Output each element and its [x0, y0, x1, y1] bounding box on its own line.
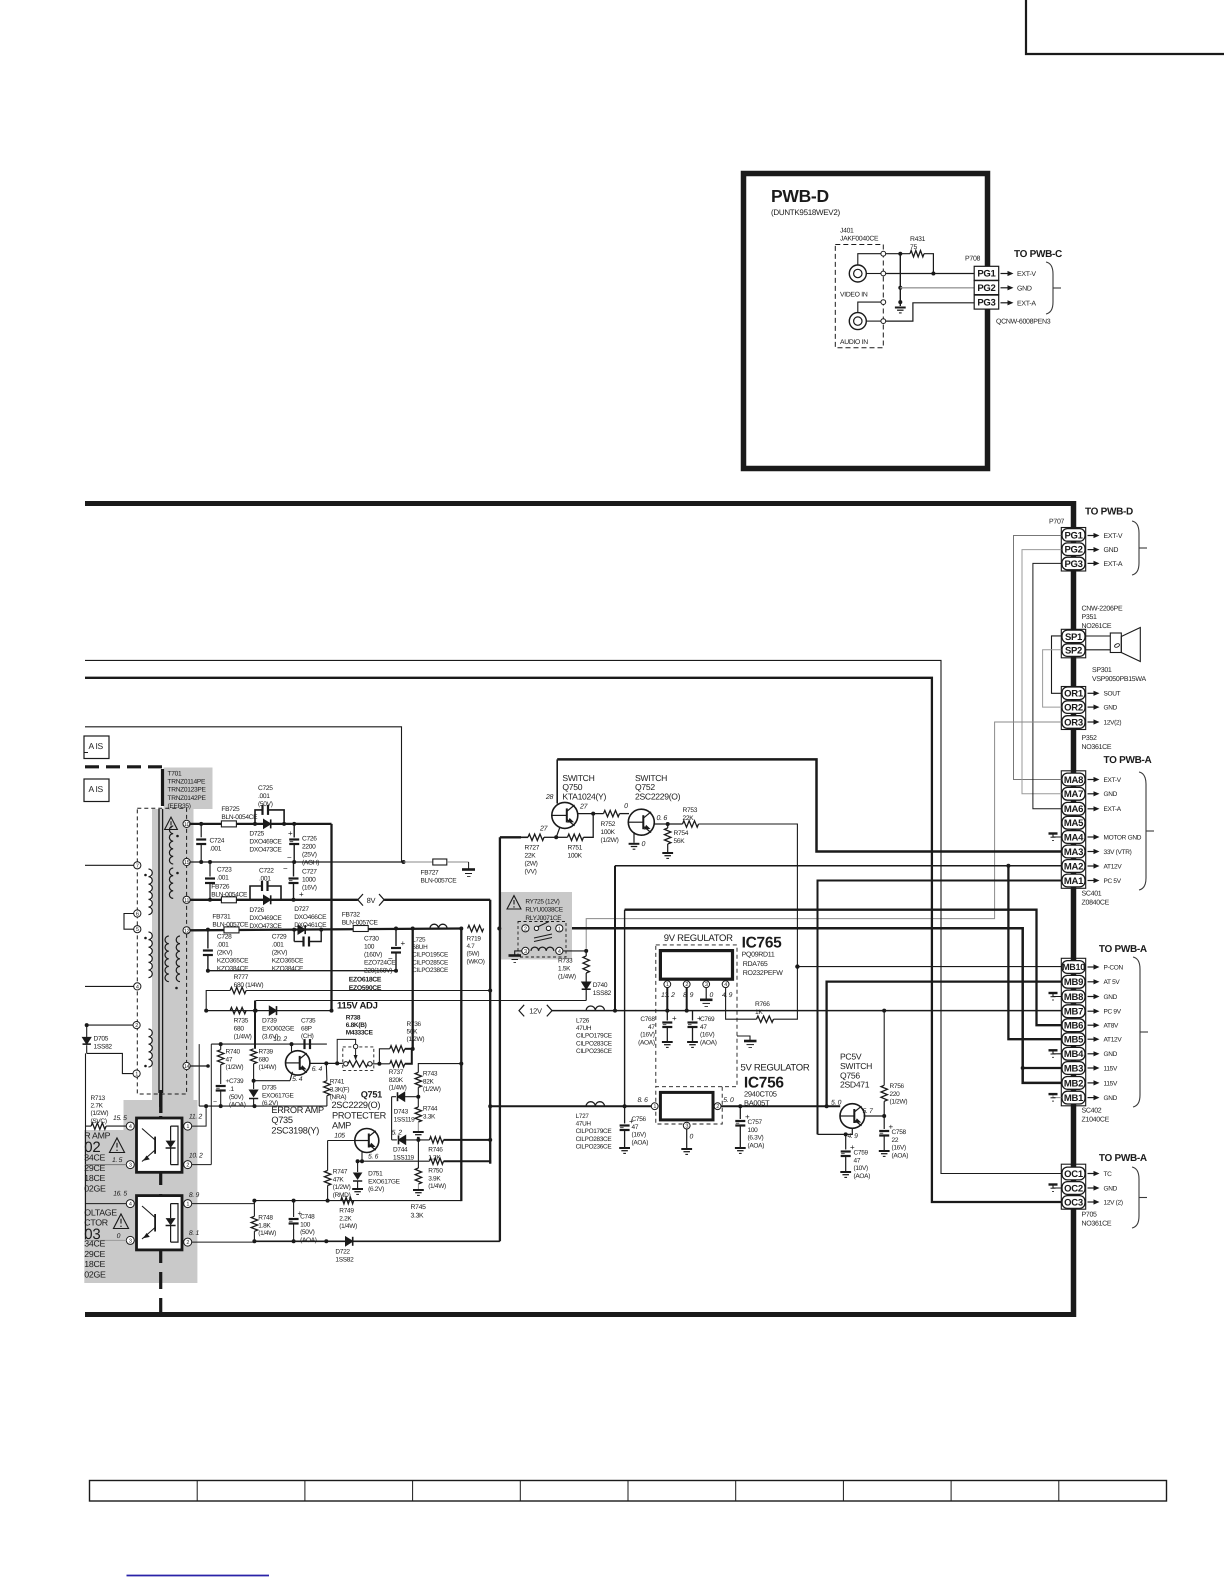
transistor Q735 (error amp)	[286, 1051, 310, 1075]
svg-text:0: 0	[624, 803, 628, 810]
IC765 pin 1	[664, 981, 671, 988]
svg-text:RY725 (12V): RY725 (12V)	[525, 899, 559, 906]
PWB-D board outline	[744, 174, 988, 469]
svg-text:02GE: 02GE	[84, 1269, 106, 1279]
svg-text:OR1: OR1	[1064, 689, 1084, 700]
svg-text:Z1040CE: Z1040CE	[1082, 1117, 1110, 1124]
diode D743	[392, 1096, 396, 1098]
blue revision underline	[127, 1575, 270, 1577]
capacitor C768	[666, 1011, 668, 1021]
svg-text:(1/4W): (1/4W)	[234, 1034, 252, 1041]
connector MA7	[1062, 787, 1085, 800]
svg-text:R741: R741	[330, 1079, 345, 1086]
junction 115V rail to down-feeder	[411, 927, 415, 931]
transistor Q752	[628, 809, 654, 835]
arrow P707 GND	[1088, 549, 1094, 551]
svg-text:22K: 22K	[525, 853, 537, 860]
svg-text:0: 0	[117, 1233, 121, 1240]
wire IC756 output	[721, 1105, 840, 1107]
svg-text:MB9: MB9	[1064, 977, 1083, 988]
IC765 pin 3	[703, 981, 710, 988]
svg-text:−: −	[287, 853, 292, 862]
svg-text:02GE: 02GE	[84, 1183, 106, 1193]
svg-text:TO PWB-D: TO PWB-D	[1085, 507, 1133, 518]
svg-text:220: 220	[890, 1091, 901, 1098]
svg-text:EZO618CE: EZO618CE	[349, 977, 382, 984]
junction 115V to R727 feeder	[497, 927, 501, 931]
wire 12V rail to MB7	[552, 1010, 1061, 1012]
wire Q750 to R752	[578, 813, 604, 815]
svg-text:GND: GND	[1104, 994, 1118, 1001]
wire 33V (VTR) net to MA3	[557, 759, 1061, 851]
ground (video/audio common)	[899, 302, 901, 306]
svg-text:.001: .001	[258, 793, 270, 800]
wire pin12 rail (115V)	[190, 929, 461, 931]
svg-text:10. 2: 10. 2	[189, 1153, 203, 1160]
transformer pin 12	[183, 927, 190, 934]
main schematic border (right)	[1071, 501, 1077, 1317]
svg-text:3: 3	[685, 1124, 688, 1130]
transformer pin 14	[183, 1062, 190, 1069]
svg-text:8V: 8V	[367, 896, 376, 905]
svg-text:0: 0	[642, 841, 646, 848]
svg-text:SOUT: SOUT	[1104, 691, 1121, 698]
svg-text:2200: 2200	[302, 844, 316, 851]
svg-text:GND: GND	[1104, 705, 1118, 712]
wire D705 node down to opto feeds	[85, 1053, 87, 1239]
svg-text:6. 4: 6. 4	[312, 1066, 323, 1073]
PC703 pin 1	[184, 1200, 192, 1208]
wire Q756 collector to PC5V	[818, 1128, 853, 1134]
wire 8V rail to down-corner	[384, 899, 490, 901]
svg-text:AT 5V: AT 5V	[1104, 979, 1121, 986]
svg-text:PC 9V: PC 9V	[1104, 1009, 1122, 1016]
svg-text:MB6: MB6	[1064, 1021, 1083, 1032]
svg-text:C722: C722	[259, 868, 274, 875]
IC765 tab ground	[737, 1036, 750, 1041]
PC703 pin 4	[126, 1200, 134, 1208]
svg-text:12V (2): 12V (2)	[1104, 1199, 1123, 1206]
svg-text:105: 105	[334, 1133, 345, 1140]
resistor R733	[585, 951, 587, 956]
svg-text:(1/2W): (1/2W)	[407, 1036, 425, 1043]
svg-text:PROTECTER: PROTECTER	[332, 1110, 387, 1120]
svg-text:47: 47	[700, 1024, 707, 1031]
svg-text:KZO384CE: KZO384CE	[272, 966, 304, 973]
svg-text:BLN-0054CE: BLN-0054CE	[211, 892, 248, 899]
svg-text:680: 680	[259, 1056, 270, 1063]
resistor R756	[883, 1011, 885, 1086]
PC702 pin 2	[184, 1161, 192, 1169]
svg-text:2: 2	[524, 926, 527, 932]
wire Q751 collector riser	[391, 1097, 393, 1140]
svg-text:1SS119: 1SS119	[394, 1116, 416, 1123]
svg-text:2: 2	[135, 1023, 138, 1029]
connector OC2	[1062, 1182, 1085, 1195]
warning triangle (transformer)	[165, 817, 178, 829]
arrow EXT-V	[1001, 273, 1008, 275]
IC765 pin 2	[683, 981, 690, 988]
svg-text:+: +	[672, 1014, 677, 1023]
svg-text:Z0840CE: Z0840CE	[1082, 900, 1110, 907]
svg-text:C759: C759	[854, 1150, 869, 1157]
svg-text:(16V): (16V)	[302, 885, 317, 892]
wire AT12V riser	[614, 866, 616, 1011]
svg-text:8. 9: 8. 9	[683, 992, 694, 999]
speaker SP301	[1086, 635, 1111, 637]
svg-text:Q751: Q751	[361, 1090, 382, 1100]
wire audio to PG3	[886, 303, 975, 321]
svg-text:PG3: PG3	[1064, 559, 1082, 570]
relay pin3 ground	[515, 951, 522, 956]
svg-text:47UH: 47UH	[576, 1121, 592, 1128]
svg-text:6.8K(B): 6.8K(B)	[346, 1022, 367, 1029]
svg-text:100: 100	[300, 1221, 311, 1228]
svg-text:C727: C727	[302, 869, 317, 876]
transformer primary winding (pins 5-4)	[149, 932, 153, 978]
transformer pin 5	[134, 926, 141, 933]
svg-text:GND: GND	[1104, 1095, 1118, 1102]
arrow MB7 PC 9V	[1088, 1010, 1094, 1012]
connector MB4	[1062, 1047, 1085, 1060]
IC756 pin3 ground	[686, 1129, 688, 1148]
ground at MB4	[1053, 1050, 1061, 1054]
svg-text:(50V): (50V)	[300, 1229, 315, 1236]
svg-text:R753: R753	[683, 807, 698, 814]
svg-text:R737: R737	[389, 1069, 404, 1076]
transformer polarity dots	[144, 874, 147, 877]
svg-text:C729: C729	[272, 934, 287, 941]
svg-text:IC765: IC765	[742, 935, 783, 952]
svg-text:MB3: MB3	[1064, 1063, 1083, 1074]
wire R777 to 8V rail	[246, 990, 490, 992]
svg-text:R739: R739	[259, 1049, 274, 1056]
wire opto2 pin1 rail (C748 R748)	[192, 1201, 255, 1204]
IC756 pin 1	[651, 1103, 658, 1110]
capacitor C769	[692, 1011, 694, 1021]
svg-text:(6.2V): (6.2V)	[368, 1186, 384, 1193]
svg-text:FB725: FB725	[221, 806, 240, 813]
ground at MB1 (gray)	[1053, 1094, 1061, 1098]
svg-text:TRNZ0142PE: TRNZ0142PE	[168, 795, 207, 802]
svg-text:82K: 82K	[423, 1078, 435, 1085]
connector MA3	[1062, 845, 1085, 858]
svg-text:MB1: MB1	[1064, 1093, 1084, 1104]
svg-text:12V: 12V	[529, 1006, 542, 1015]
svg-text:2SC2229(O): 2SC2229(O)	[635, 791, 681, 801]
svg-text:RLYU0038CE: RLYU0038CE	[525, 907, 563, 914]
svg-text:C769: C769	[700, 1016, 715, 1023]
svg-text:VSP9050PB15WA: VSP9050PB15WA	[1092, 676, 1146, 683]
svg-text:(2KV): (2KV)	[272, 950, 287, 957]
svg-text:(EER35): (EER35)	[168, 803, 191, 810]
wire R777 branch	[206, 991, 230, 1011]
transformer pin 15	[183, 858, 190, 865]
PC703 LED	[170, 1204, 172, 1219]
svg-text:PG1: PG1	[977, 269, 996, 280]
capacitor C728	[206, 928, 210, 932]
resistor R752	[604, 810, 620, 816]
svg-text:C756: C756	[632, 1116, 647, 1123]
svg-text:CILPO236CE: CILPO236CE	[576, 1143, 612, 1150]
RCA jack VIDEO IN	[849, 265, 866, 282]
PC702 phototransistor	[154, 1137, 156, 1154]
connector P707 PG1	[1062, 529, 1085, 542]
connector MB2	[1062, 1077, 1085, 1090]
IC765 pin3 ground	[705, 988, 707, 1000]
wire video jack shield to pin	[858, 254, 881, 265]
svg-text:.001: .001	[210, 846, 222, 853]
svg-text:SP301: SP301	[1092, 667, 1112, 674]
diode D705	[86, 1025, 88, 1037]
svg-text:EXO602GE: EXO602GE	[262, 1026, 295, 1033]
svg-text:(1/2W): (1/2W)	[226, 1064, 244, 1071]
svg-text:FB731: FB731	[212, 914, 231, 921]
svg-text:100: 100	[364, 944, 375, 951]
resistor R746	[430, 1137, 444, 1143]
svg-text:(16V): (16V)	[892, 1145, 907, 1152]
wire pot right to dividers	[372, 1063, 390, 1065]
wire Q752 collector rail	[654, 823, 682, 825]
svg-text:28: 28	[545, 794, 554, 801]
wire IC765 pin2 to 12V rail	[686, 988, 688, 1011]
svg-text:15: 15	[184, 860, 190, 866]
diode D744	[392, 1139, 397, 1141]
svg-text:4: 4	[136, 984, 139, 990]
svg-text:P351: P351	[1082, 614, 1098, 621]
svg-text:56K: 56K	[674, 838, 686, 845]
svg-text:EXO617GE: EXO617GE	[368, 1178, 401, 1185]
svg-text:0: 0	[690, 1134, 694, 1141]
svg-text:R736: R736	[407, 1021, 422, 1028]
svg-text:R431: R431	[910, 236, 926, 243]
transformer secondary winding (pin 15-11)	[169, 868, 173, 898]
svg-text:3.3K(F): 3.3K(F)	[330, 1086, 350, 1093]
svg-text:R749: R749	[339, 1208, 354, 1215]
wire relay pin4 to R733 node	[563, 950, 586, 952]
svg-text:MA4: MA4	[1064, 832, 1084, 843]
shaded relay area RY725	[501, 892, 572, 960]
optocoupler PC703 box	[137, 1196, 183, 1250]
relay RY725 dashed outline	[518, 922, 566, 958]
svg-text:1SS119: 1SS119	[393, 1154, 415, 1161]
svg-text:RLYJ0071CE: RLYJ0071CE	[525, 915, 562, 922]
svg-text:47K: 47K	[333, 1176, 345, 1183]
svg-text:3.3K: 3.3K	[423, 1113, 436, 1120]
chain line boundary (vertical, bottom)	[159, 1090, 162, 1313]
arrow MB9 AT 5V	[1088, 981, 1094, 983]
svg-text:100: 100	[748, 1127, 759, 1134]
wire IC765 pin1 to 12V rail	[666, 988, 668, 1011]
capacitor C730 (electrolytic)	[394, 927, 398, 931]
capacitor C758	[883, 1116, 885, 1129]
svg-text:68P: 68P	[301, 1025, 312, 1032]
resistor R727	[528, 834, 544, 840]
R754 ground	[667, 844, 669, 852]
wire SP2 to OR2 (gray)	[1043, 650, 1062, 707]
wire to pin 2 with D705 node	[85, 1024, 133, 1026]
svg-text:R752: R752	[601, 821, 616, 828]
svg-text:TRNZ0123PE: TRNZ0123PE	[168, 787, 207, 794]
svg-text:2940CT05: 2940CT05	[744, 1090, 777, 1099]
svg-text:CILPO236CE: CILPO236CE	[576, 1048, 612, 1055]
transistor Q751	[355, 1129, 379, 1153]
svg-text:8. 9: 8. 9	[189, 1192, 200, 1199]
svg-text:1: 1	[558, 926, 561, 932]
svg-text:OC1: OC1	[1064, 1169, 1084, 1180]
svg-text:47: 47	[854, 1157, 861, 1164]
arrow MB10 P-CON	[1088, 966, 1094, 968]
arrow OR GND	[1088, 706, 1094, 708]
svg-text:CILPO195CE: CILPO195CE	[412, 952, 448, 959]
wire Q735 collector node	[310, 1062, 343, 1064]
svg-text:(25V): (25V)	[302, 852, 317, 859]
arrow MB6 AT8V	[1088, 1024, 1094, 1026]
IC765 pin 4	[722, 981, 729, 988]
wire 115V branch to MB3	[1023, 1067, 1062, 1069]
svg-text:(1/4W): (1/4W)	[258, 1230, 276, 1237]
wire 115V aux vertical (to D722 line)	[412, 929, 414, 1049]
arrow P707 EXT-V	[1088, 535, 1094, 537]
svg-text:MA2: MA2	[1064, 861, 1083, 872]
svg-text:FB732: FB732	[342, 912, 361, 919]
wire pin15 rail (AGH)	[190, 861, 403, 863]
arrow MA1 PC 5V	[1088, 880, 1094, 882]
potentiometer wiper	[353, 1044, 357, 1048]
svg-text:18CE: 18CE	[84, 1173, 105, 1183]
page corner rule top-right	[1026, 0, 1224, 54]
transformer primary winding (pins 7-6)	[149, 869, 153, 915]
svg-text:R751: R751	[568, 845, 583, 852]
svg-text:CILPO283CE: CILPO283CE	[576, 1040, 612, 1047]
wire R727 to Q750	[521, 836, 528, 838]
svg-text:MA7: MA7	[1064, 789, 1083, 800]
svg-text:R738: R738	[346, 1015, 361, 1022]
svg-text:12V(2): 12V(2)	[1104, 719, 1122, 726]
wire P-CON / 9V sense net to MB10	[797, 966, 1061, 968]
arrow GND	[1001, 287, 1008, 289]
connector OR1	[1062, 687, 1085, 700]
svg-text:DXO469CE: DXO469CE	[249, 839, 282, 846]
svg-text:GND: GND	[1104, 547, 1119, 554]
svg-text:MB5: MB5	[1064, 1035, 1084, 1046]
svg-text:5: 5	[136, 927, 139, 933]
transformer secondary winding (pin 10-15)	[169, 826, 173, 864]
connector MB9	[1062, 975, 1085, 988]
shaded isolation area (transformer column)	[152, 809, 194, 1114]
transformer pin 2	[133, 1022, 140, 1029]
wire Q750 collector to 33V line	[556, 759, 558, 803]
svg-text:TO PWB-C: TO PWB-C	[1014, 249, 1062, 260]
svg-text:D751: D751	[368, 1171, 383, 1178]
svg-text:BLN-0054CE: BLN-0054CE	[221, 814, 258, 821]
wire video jack center out	[866, 273, 881, 275]
IC756 body	[660, 1092, 713, 1120]
connector P707 PG2	[1062, 543, 1085, 556]
svg-text:C723: C723	[217, 867, 232, 874]
connector MA6	[1062, 802, 1085, 815]
svg-text:.1: .1	[229, 1086, 235, 1093]
connector SP2	[1062, 644, 1085, 657]
arrow EXT-A	[1001, 302, 1008, 304]
svg-text:34CE: 34CE	[84, 1153, 105, 1163]
svg-text:2SD471: 2SD471	[840, 1080, 870, 1090]
svg-text:5. 4: 5. 4	[292, 1076, 303, 1083]
Q752 emitter ground	[633, 832, 635, 843]
svg-text:(16V): (16V)	[640, 1032, 655, 1039]
arrow MA8 EXT-V	[1088, 779, 1094, 781]
svg-text:(1/2W): (1/2W)	[333, 1184, 351, 1191]
svg-text:18CE: 18CE	[84, 1259, 105, 1269]
connector P708 PG3	[974, 295, 999, 309]
resistor R766	[757, 1016, 774, 1022]
chain line primary/secondary boundary (horizontal)	[85, 765, 162, 768]
svg-text:1.8K: 1.8K	[258, 1222, 271, 1229]
ground at MA4	[1053, 834, 1061, 838]
svg-text:D727: D727	[294, 906, 309, 913]
svg-text:PQ09RD11: PQ09RD11	[742, 952, 775, 959]
svg-text:(AOA): (AOA)	[229, 1102, 246, 1109]
svg-text:6: 6	[136, 911, 139, 917]
connector P708 PG2	[974, 281, 999, 295]
svg-text:P708: P708	[965, 256, 981, 263]
PC702 pin 1	[184, 1122, 192, 1130]
svg-text:2.2K: 2.2K	[339, 1215, 352, 1222]
wire R766 to 9V output node	[774, 967, 798, 1020]
svg-text:MOTOR GND: MOTOR GND	[1104, 834, 1142, 841]
svg-text:1.5K: 1.5K	[558, 966, 571, 973]
capacitor C724	[200, 824, 202, 837]
arrow MB2 115V	[1088, 1082, 1094, 1084]
zener D751	[357, 1161, 359, 1172]
relay contact terminal 2	[522, 925, 529, 932]
connector MB5	[1062, 1033, 1085, 1046]
wire secondary return line	[208, 970, 396, 972]
svg-text:3: 3	[705, 982, 708, 988]
arrow OC1 TC	[1088, 1173, 1094, 1175]
svg-text:(6.3V): (6.3V)	[748, 1135, 764, 1142]
svg-text:TO PWB-A: TO PWB-A	[1104, 755, 1152, 766]
transformer pin 6	[134, 910, 141, 917]
arrow OR SOUT	[1088, 692, 1094, 694]
svg-text:EXT-V: EXT-V	[1017, 271, 1036, 278]
transformer pin 10	[183, 820, 190, 827]
resistor R719	[468, 925, 484, 931]
resistor R737	[390, 1061, 405, 1067]
resistor R736 (parallel)	[379, 1049, 389, 1064]
svg-text:L727: L727	[576, 1113, 590, 1120]
transformer core	[158, 809, 160, 1093]
svg-text:22: 22	[892, 1137, 899, 1144]
wire Q756 emitter node	[864, 1115, 885, 1117]
svg-text:7: 7	[136, 863, 139, 869]
arrow P707 EXT-A	[1088, 562, 1094, 564]
connector MB3	[1062, 1062, 1085, 1075]
svg-text:9V REGULATOR: 9V REGULATOR	[664, 933, 733, 944]
svg-text:1000: 1000	[302, 877, 316, 884]
diode D722	[346, 1237, 353, 1246]
wire 115V feedback rail down	[460, 929, 462, 1202]
wire IC765 pin4 sense	[726, 988, 757, 1020]
svg-text:16. 5: 16. 5	[113, 1191, 127, 1198]
brace TO PWB-A (MB)	[1133, 957, 1140, 1107]
svg-text:47UH: 47UH	[576, 1025, 592, 1032]
svg-text:R733: R733	[558, 958, 573, 965]
svg-text:2.7K: 2.7K	[91, 1103, 104, 1110]
svg-text:MB4: MB4	[1064, 1049, 1084, 1060]
connector MA4	[1062, 831, 1085, 844]
svg-text:(1/2W): (1/2W)	[601, 837, 619, 844]
